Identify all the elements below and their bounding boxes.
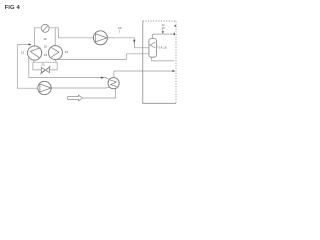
label 23 leader tick bbox=[119, 30, 121, 33]
tick on dotted boundary upper right bbox=[175, 25, 177, 27]
svg-text:14,16: 14,16 bbox=[159, 45, 167, 49]
svg-text:16: 16 bbox=[65, 50, 69, 54]
pump 23 top bbox=[93, 31, 107, 45]
wire: crossover roof between compressors bbox=[34, 28, 58, 46]
compressor 16 bbox=[48, 46, 62, 60]
wire: valve box upper rail bbox=[33, 60, 57, 63]
wire: economizer loop to evaporator bbox=[29, 57, 110, 80]
wire: arrow branch into compressor 15 bbox=[17, 44, 29, 46]
label leader arrow at vessel top bbox=[162, 29, 164, 33]
wire: suction line left riser bbox=[17, 45, 38, 89]
wire: valve branch bbox=[33, 62, 57, 70]
wire: pump 23 line bbox=[58, 38, 148, 48]
wire: external flow line into evaporator bottom bbox=[83, 89, 116, 98]
arrowhead down on pump 23 drop bbox=[133, 40, 135, 44]
wire: vessel top pipe bbox=[153, 34, 175, 38]
vessel 14,16 bbox=[149, 39, 159, 58]
svg-text:15: 15 bbox=[21, 51, 25, 55]
boundary box right side bbox=[143, 21, 176, 104]
small circulation device on crossover bbox=[41, 24, 49, 32]
evaporator heat exchanger circle bbox=[108, 78, 119, 89]
svg-text:21: 21 bbox=[41, 63, 45, 67]
tick at boundary on vessel top pipe bbox=[174, 33, 175, 35]
svg-text:18: 18 bbox=[44, 53, 48, 57]
wire: vessel bottom pipe bbox=[152, 57, 174, 61]
wire: compressor 16 top stub bbox=[54, 28, 56, 46]
expansion valve 21 bbox=[40, 66, 51, 75]
wire: evaporator top to dotted boundary bbox=[114, 71, 174, 78]
svg-text:20: 20 bbox=[44, 45, 48, 49]
arrowhead at boundary on evaporator line bbox=[172, 70, 175, 72]
svg-text:FIG 4: FIG 4 bbox=[5, 5, 21, 11]
compressor 15 bbox=[27, 46, 41, 60]
wire: compressor 16 discharge to vessel bbox=[57, 54, 149, 60]
arrowhead on economizer loop bbox=[101, 77, 104, 79]
svg-text:19: 19 bbox=[43, 37, 47, 41]
external flow open arrow bbox=[68, 95, 83, 101]
svg-text:23: 23 bbox=[118, 26, 122, 30]
arrowhead into compressor 15 bbox=[29, 43, 32, 45]
pump 22 bottom bbox=[38, 81, 51, 94]
wire: pump 22 outlet to evaporator bbox=[51, 87, 109, 88]
svg-text:46: 46 bbox=[162, 26, 165, 30]
